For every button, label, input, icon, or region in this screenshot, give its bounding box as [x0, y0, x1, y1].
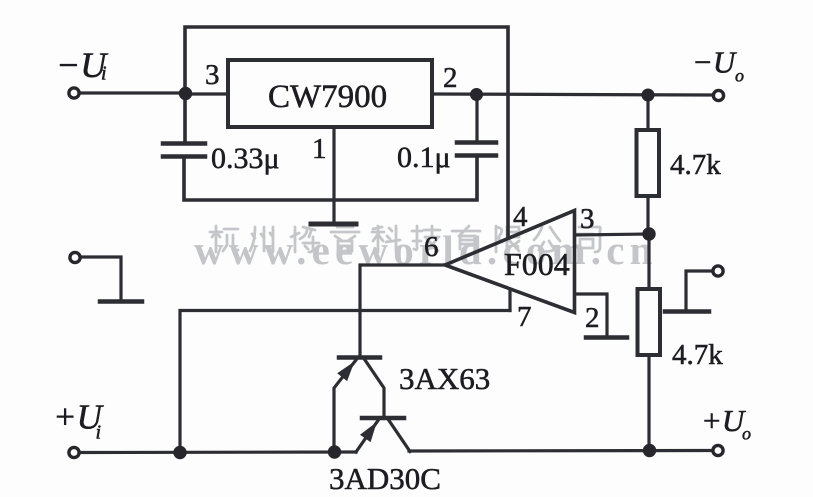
svg-text:0.33μ: 0.33μ [211, 142, 280, 175]
svg-text:2: 2 [585, 302, 600, 334]
svg-text:i: i [96, 422, 102, 444]
svg-text:o: o [742, 424, 751, 444]
svg-text:6: 6 [424, 231, 439, 263]
svg-text:3: 3 [205, 59, 220, 91]
svg-text:CW7900: CW7900 [268, 79, 387, 115]
svg-text:7: 7 [517, 301, 532, 333]
svg-text:1: 1 [312, 133, 327, 165]
svg-text:4.7k: 4.7k [672, 339, 723, 371]
svg-text:+U: +U [701, 403, 747, 438]
svg-text:3AX63: 3AX63 [399, 361, 490, 396]
svg-text:i: i [101, 63, 107, 85]
svg-text:2: 2 [443, 62, 458, 94]
svg-text:−U: −U [692, 45, 738, 80]
svg-text:3AD30C: 3AD30C [329, 461, 441, 496]
svg-text:4.7k: 4.7k [670, 149, 721, 181]
svg-text:4: 4 [513, 201, 528, 233]
svg-text:F004: F004 [504, 246, 570, 282]
svg-text:0.1μ: 0.1μ [397, 141, 451, 174]
svg-text:3: 3 [580, 203, 595, 235]
svg-text:o: o [735, 66, 744, 86]
